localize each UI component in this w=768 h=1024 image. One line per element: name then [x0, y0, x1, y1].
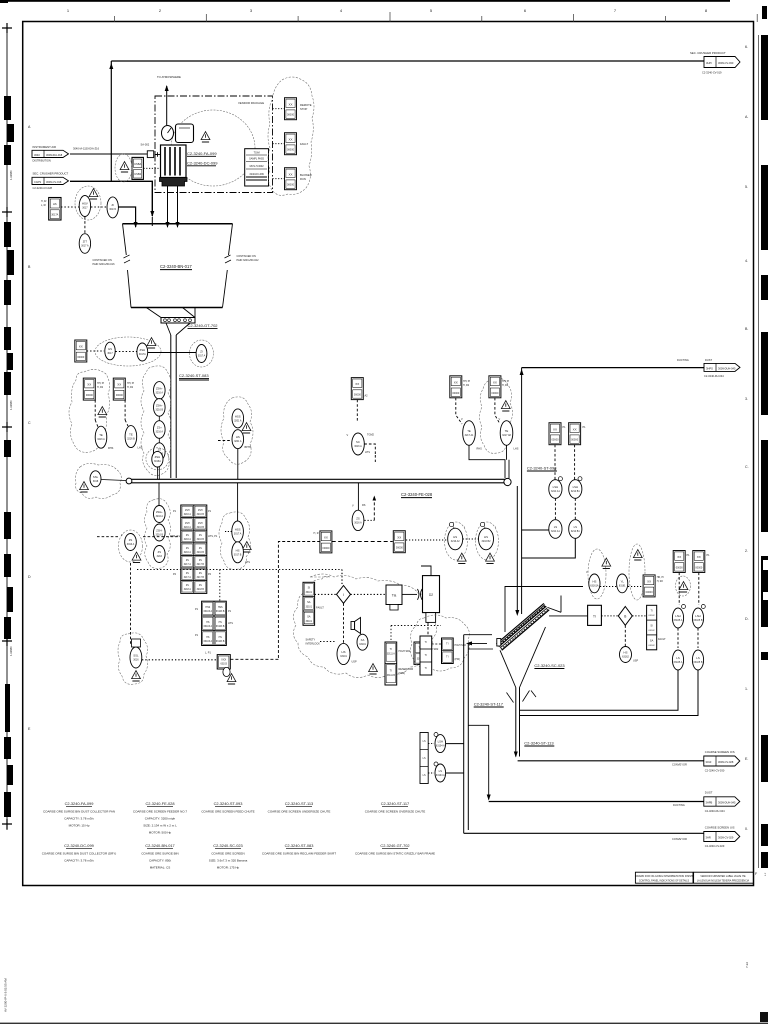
svg-text:33111 A: 33111 A [387, 653, 396, 656]
bubble HS-3201A [232, 430, 252, 449]
wire dotted B to SI stack [632, 615, 646, 617]
svg-text:DUCTING: DUCTING [673, 803, 685, 807]
svg-text:3217 B: 3217 B [197, 577, 205, 579]
coupling symbol [418, 589, 423, 600]
svg-text:B: B [624, 615, 626, 619]
wire dashed B down to HS [624, 625, 626, 647]
motor starter TIa box [386, 585, 402, 610]
wires: filter discharge lines into bin [167, 186, 169, 227]
wire screen to Tr row [549, 615, 588, 617]
svg-text:RHS: RHS [108, 447, 114, 450]
equipment note DC-099 [42, 843, 117, 863]
svg-text:LHS: LHS [228, 622, 233, 625]
svg-text:3009-CV-028: 3009-CV-028 [718, 760, 734, 764]
wire: dotted USBA to filter [143, 167, 160, 169]
svg-text:USB2: USB2 [134, 172, 141, 176]
svg-text:3017 B: 3017 B [234, 553, 242, 556]
duct feed stubs to screen [464, 635, 492, 644]
DCS box LSH-3214A1 [549, 423, 561, 445]
wire dotted HS to HSV [61, 206, 79, 208]
wire ZSH to belt [156, 467, 158, 479]
svg-text:0.: 0. [745, 827, 748, 831]
DCS box SE-3016B [351, 378, 363, 400]
svg-text:SA: SA [307, 600, 311, 604]
svg-text:(SR2): (SR2) [399, 672, 406, 675]
bottom scan edge line [0, 1023, 768, 1024]
svg-text:CONTINUED ON: CONTINUED ON [237, 255, 257, 258]
bubble TE-3216A [95, 426, 113, 450]
svg-text:3009-DUH-045: 3009-DUH-045 [718, 801, 736, 805]
svg-text:3018: 3018 [93, 480, 99, 483]
svg-text:3017: 3017 [82, 207, 88, 210]
DCS box ZS-3216A8 [393, 531, 405, 553]
svg-text:63161A: 63161A [590, 584, 599, 587]
svg-text:HS: HS [624, 651, 628, 655]
DCS box LSH-63105A [673, 551, 685, 573]
equipment note SC-023 [209, 843, 248, 870]
DCS box [420, 733, 428, 784]
svg-text:MOTOR: 175 Hp: MOTOR: 175 Hp [217, 866, 240, 870]
small bubble + triangle under LP box [223, 667, 230, 676]
svg-text:C2-3240-ST-083: C2-3240-ST-083 [179, 373, 209, 378]
wire dotted stack to diamond [315, 593, 336, 595]
wire dashed run y=659.3 [230, 658, 278, 660]
svg-text:C2-3240-FE-028: C2-3240-FE-028 [401, 492, 433, 497]
bubble ZI-3017A [196, 345, 207, 363]
svg-text:RHS: RHS [477, 448, 483, 451]
svg-text:3217 A8: 3217 A8 [502, 434, 511, 437]
svg-text:HSS: HSS [205, 607, 210, 609]
svg-text:HH, PI: HH, PI [97, 382, 104, 385]
svg-text:3216 A: 3216 A [184, 526, 192, 529]
DCS box SI-63161 [643, 575, 664, 597]
wire TE bus to head pulley [469, 445, 505, 478]
bubble LSH-63104 [434, 733, 446, 753]
bubble LS-63105B [692, 650, 703, 670]
wire dotted main run y=569.5 [137, 569, 342, 571]
sample panel box [245, 149, 269, 186]
svg-text:HSS: HSS [218, 607, 223, 609]
svg-text:3217 A: 3217 A [184, 576, 192, 579]
svg-text:TE: TE [129, 433, 133, 437]
bubble ZSH+3216A [154, 382, 166, 400]
svg-text:USBA: USBA [134, 162, 141, 166]
DCS box BLOWER RUN [285, 168, 312, 190]
svg-text:33111 B: 33111 B [387, 675, 396, 677]
bubble ZSH-3016A (above belt) [152, 451, 163, 467]
wire dotted to fault [273, 143, 285, 145]
bubble ZS-3016A (below belt) [352, 483, 366, 531]
wire dotted YL to SI [628, 586, 643, 588]
svg-text:TO ATMOSPHERE: TO ATMOSPHERE [157, 75, 181, 79]
svg-text:3216 A: 3216 A [156, 515, 164, 518]
svg-text:CONTINUED ON: CONTINUED ON [93, 259, 113, 262]
wire dotted lube run [390, 626, 392, 643]
right registration strip [759, 6, 768, 868]
duct C2-3240-ST-083 (double line down to conveyor) [170, 335, 172, 478]
cloud + triangle (USBA) [115, 154, 132, 182]
svg-text:C2-3240-FA-099: C2-3240-FA-099 [187, 151, 217, 156]
wire bubble stack connectors [158, 398, 160, 400]
svg-text:3009-DUH-045: 3009-DUH-045 [718, 367, 736, 371]
wire dotted to GS bubble [87, 350, 104, 352]
skirt lips [507, 691, 537, 703]
svg-text:FAULT: FAULT [658, 638, 666, 641]
svg-text:3216 A: 3216 A [97, 438, 105, 441]
wires dashed LSH to LS [677, 628, 679, 648]
equipment note FE-028 [133, 801, 188, 835]
svg-text:CONVEYOR: CONVEYOR [672, 762, 687, 766]
svg-text:CONTROL PANEL INDICATIONS OF D: CONTROL PANEL INDICATIONS OF DETAILS [639, 880, 690, 883]
svg-text:3016 A: 3016 A [354, 521, 362, 524]
svg-text:HIGH SR2: HIGH SR2 [455, 644, 467, 647]
valve bubble HSV-3017 [79, 196, 90, 217]
bubble ZSH-3216B [154, 524, 166, 541]
wire: riser x=111 down to sec crusher line [110, 61, 112, 181]
svg-text:D: D [28, 575, 31, 579]
label C2-3240-ST-113 [524, 741, 554, 747]
svg-text:TE: TE [467, 429, 471, 433]
svg-text:C2-3240-ST-117: C2-3240-ST-117 [474, 702, 504, 707]
svg-text:3216 A: 3216 A [184, 538, 192, 541]
svg-text:3214 B1: 3214 B1 [571, 530, 581, 533]
bubble LSH-63105B [692, 605, 705, 629]
inlet arrow INSTRUMENT AIR [32, 145, 100, 163]
wire dotted HSV to ZI bubble [91, 206, 107, 208]
svg-text:3017A: 3017A [109, 208, 116, 211]
bubble ZS-3216B [154, 443, 166, 461]
conveyor belt lines [129, 478, 507, 480]
svg-text:3217 A: 3217 A [184, 563, 192, 566]
wire across duct to ZI bubble [148, 352, 196, 354]
wire drop from belt to pull-cord stack [158, 483, 160, 506]
triangle HS right [486, 553, 495, 563]
bubble ZIT-3017A [79, 234, 90, 254]
svg-text:HSS: HSS [235, 528, 241, 532]
svg-text:SC: SC [356, 440, 360, 444]
svg-text:INSTRUMENT AIR: INSTRUMENT AIR [33, 145, 57, 149]
bubble LS-3214B1 [569, 520, 582, 539]
svg-text:ZS: ZS [356, 516, 360, 520]
svg-text:INTERLOCK: INTERLOCK [306, 643, 321, 646]
svg-text:ZS: ZS [186, 573, 189, 575]
bubble HS-3216A2 [448, 522, 466, 550]
svg-text:3216 B: 3216 B [197, 514, 205, 516]
svg-text:BLOWER: BLOWER [300, 173, 312, 177]
note box 1 [635, 872, 693, 883]
DCS stack SI-33101 [303, 582, 324, 625]
wire undersize to conveyor [464, 832, 704, 834]
cloud around blower group [171, 110, 255, 186]
svg-text:C2-3240-CV-029: C2-3240-CV-029 [705, 844, 725, 848]
svg-text:LHS, P1: LHS, P1 [208, 535, 218, 538]
wire dashed short stub left of ZS-3016A [97, 536, 118, 538]
svg-text:COARSE SCREEN U/S: COARSE SCREEN U/S [705, 826, 735, 830]
wire belt to HSS cluster [237, 483, 239, 521]
wire dashed down from ZS-3016A [130, 563, 132, 645]
svg-text:ZI: ZI [111, 203, 114, 207]
svg-text:63162: 63162 [649, 630, 656, 632]
bubble SC-3016A [347, 433, 375, 455]
top ruler numbers [67, 8, 708, 13]
svg-text:TE: TE [505, 429, 509, 433]
svg-text:CAPACITY: 850t: CAPACITY: 850t [149, 859, 171, 863]
outlet arrow COARSE SCREEN U/S [704, 826, 740, 849]
bubble LS-63105A [672, 650, 683, 670]
warning triangle (blower) [201, 132, 210, 142]
svg-text:LS: LS [423, 774, 426, 777]
svg-text:E.: E. [745, 757, 748, 761]
svg-text:63103 A: 63103 A [204, 640, 213, 643]
cloud HSS pair (belt stop switches) [219, 512, 251, 569]
svg-text:3214 B1: 3214 B1 [571, 490, 581, 493]
svg-text:SIZE: 2.134 m W x 2 m L: SIZE: 2.134 m W x 2 m L [143, 824, 177, 828]
wire dotted between HS pair [463, 538, 479, 540]
cloud [119, 530, 143, 562]
svg-text:ZSH: ZSH [198, 523, 203, 525]
wire dotted ZS to dashed riser [365, 519, 375, 521]
bubble TE-3217A8 [499, 418, 519, 451]
svg-text:TE: TE [99, 433, 103, 437]
svg-text:3040-IA-1150-DIA-Z16: 3040-IA-1150-DIA-Z16 [73, 147, 100, 151]
label C2-3240-FA-099 [187, 151, 217, 156]
svg-text:ZS: ZS [186, 585, 189, 587]
svg-text:LSH: LSH [675, 614, 680, 618]
svg-text:RESERVOIR: RESERVOIR [399, 668, 414, 671]
cloud around right TI/TE pair [480, 378, 513, 453]
svg-text:ZSH: ZSH [155, 455, 161, 459]
svg-text:COARSE ORE SURGE BIN RECLAIM F: COARSE ORE SURGE BIN RECLAIM FEEDER SKIR… [262, 852, 336, 856]
svg-text:C2-3240-ST-113: C2-3240-ST-113 [524, 741, 554, 746]
wire from belt drive up [421, 566, 431, 576]
svg-text:LS: LS [676, 656, 680, 660]
screen feed box (left end) [497, 639, 501, 647]
wire dashed from box left then down [278, 542, 320, 556]
DCS faceplate grid (belt switch matrix) [170, 505, 218, 593]
wire dashed TI to TE [94, 400, 96, 420]
DCS box TI-33112 [414, 642, 439, 664]
svg-text:P&ID 3200-ZID-022: P&ID 3200-ZID-022 [237, 259, 260, 262]
svg-text:TIa: TIa [392, 594, 397, 598]
svg-text:LS: LS [423, 740, 426, 743]
svg-text:3216: 3216 [157, 555, 163, 558]
svg-text:3214 A1: 3214 A1 [551, 490, 560, 493]
svg-text:LSH: LSH [695, 614, 700, 618]
wire dashed down [495, 398, 500, 424]
bottom right corner mark [745, 962, 768, 1022]
svg-text:3016 A: 3016 A [127, 543, 135, 546]
svg-text:ZS: ZS [199, 535, 202, 537]
svg-text:1-32680: 1-32680 [9, 646, 13, 656]
registration crosses [2, 23, 12, 33]
interlock diamond B [618, 607, 632, 626]
svg-text:ZS: ZS [199, 548, 202, 550]
right margin row letters [745, 45, 758, 876]
cloud column A [69, 369, 110, 452]
svg-text:HH, PI: HH, PI [463, 380, 470, 383]
svg-text:H, R2: H, R2 [463, 384, 470, 387]
svg-text:ZS: ZS [186, 535, 189, 537]
svg-text:ZS+: ZS+ [157, 426, 162, 430]
DCS box GS-3017 [75, 340, 87, 362]
svg-text:ZS: ZS [199, 560, 202, 562]
svg-text:SAMPL PASS: SAMPL PASS [249, 158, 264, 161]
label C2-3240-ST-093 [527, 466, 557, 472]
svg-text:HS: HS [219, 622, 223, 624]
bubble HS-3216B2 [479, 522, 497, 550]
svg-text:C2-3240-ST-117: C2-3240-ST-117 [381, 801, 409, 806]
svg-text:ZSH: ZSH [139, 348, 145, 352]
svg-text:C2-3240-DC-099: C2-3240-DC-099 [187, 161, 218, 166]
svg-text:FAULT: FAULT [300, 142, 309, 146]
fold blocks [4, 96, 14, 817]
svg-text:63162: 63162 [649, 645, 656, 647]
wire dashed D2 to boxes [427, 622, 429, 636]
svg-text:HSV: HSV [82, 202, 88, 206]
svg-text:3216 A: 3216 A [184, 551, 192, 554]
svg-text:COARSE ORE SURGE BIN STATIC GR: COARSE ORE SURGE BIN STATIC GRIZZLY BAR … [355, 852, 435, 856]
svg-text:ZS: ZS [199, 573, 202, 575]
svg-text:C2-3240-SC-023: C2-3240-SC-023 [213, 843, 242, 848]
svg-text:SA: SA [307, 615, 311, 619]
wire dotted drop from dotted run to mid grid [219, 570, 221, 602]
svg-text:L, R/: L, R/ [41, 204, 46, 207]
svg-text:HS: HS [484, 535, 488, 539]
wire dashed SE to SC bubble [356, 400, 358, 421]
svg-text:ZS: ZS [129, 538, 133, 542]
svg-text:3009-CV-029: 3009-CV-029 [718, 836, 734, 840]
svg-text:ZSH: ZSH [185, 510, 190, 512]
svg-text:HS: HS [236, 435, 240, 439]
wire oversize to conveyor [518, 760, 704, 762]
svg-text:3HPI: 3HPI [706, 61, 712, 65]
svg-text:COARSE ORE SCREEN: COARSE ORE SCREEN [211, 852, 244, 856]
svg-text:FAULT: FAULT [316, 606, 324, 610]
big cloud [293, 574, 436, 678]
svg-text:SA-002: SA-002 [141, 143, 150, 147]
svg-text:RS: RS [362, 504, 366, 507]
svg-text:SI: SI [650, 625, 653, 628]
svg-text:MATERIAL: CS: MATERIAL: CS [150, 866, 171, 870]
svg-text:HS: HS [219, 637, 223, 639]
svg-text:HS: HS [453, 535, 457, 539]
DCS box TI-3217A1 [450, 376, 462, 398]
wire dashed between boxes [332, 541, 393, 543]
solenoid USBA box [132, 157, 143, 179]
wire dust to ducting [489, 801, 704, 803]
wire dotted HSS left [225, 531, 232, 533]
svg-text:DRAWN FOR ON-GOING INTERPRETAT: DRAWN FOR ON-GOING INTERPRETATION FINISH [635, 875, 693, 878]
svg-text:LHS: LHS [365, 451, 370, 454]
svg-text:DUST: DUST [705, 791, 713, 795]
svg-text:USP: USP [352, 661, 357, 664]
svg-text:SEC. CRUSHER PRODUCT: SEC. CRUSHER PRODUCT [690, 51, 726, 55]
transformer box Tr [588, 605, 602, 625]
svg-text:63162: 63162 [649, 615, 656, 617]
wires dashed LSH to LS [554, 498, 556, 519]
screen underflow V chute [500, 650, 516, 687]
svg-text:3216 B2: 3216 B2 [482, 540, 492, 543]
svg-text:63105 A: 63105 A [674, 661, 683, 664]
wires dashed down to LSH bubbles [554, 445, 556, 480]
inlet arrow SEC. CRUSHER PRODUCT (left) [32, 172, 69, 190]
equipment note ST-083 [262, 843, 336, 856]
outlet arrow DUST (bottom) [704, 791, 740, 814]
svg-text:LHS: LHS [514, 448, 519, 451]
DCS box cluster left [420, 636, 432, 675]
svg-text:XA: XA [361, 638, 365, 642]
cloud pull-cord stack [145, 499, 171, 569]
svg-text:3217 B: 3217 B [197, 564, 205, 566]
cloud (ZI right) [190, 340, 214, 367]
svg-text:HR, PI: HR, PI [657, 576, 664, 579]
svg-text:H, R: H, R [314, 532, 319, 535]
bubble YL-63161 [617, 574, 628, 593]
svg-text:TO/M: TO/M [254, 152, 260, 155]
svg-text:STOP: STOP [300, 107, 307, 111]
tall cloud C (bin level switches) [141, 366, 171, 476]
svg-text:C2-3240-FA-099: C2-3240-FA-099 [65, 801, 94, 806]
wires dashed down [678, 573, 680, 606]
svg-text:4.: 4. [745, 259, 748, 263]
wire probes into chute [522, 529, 549, 531]
wire dashed from HS-3201A to left [218, 440, 231, 442]
bubble ZSH+3216B [154, 399, 166, 417]
svg-text:C: C [28, 421, 31, 425]
svg-text:CAPACITY: 3200 mtph: CAPACITY: 3200 mtph [145, 817, 176, 821]
svg-text:LS: LS [696, 656, 700, 660]
DCS box TI-3216B (column B) [113, 378, 125, 400]
svg-text:VENDOR PACKAGE: VENDOR PACKAGE [238, 101, 264, 105]
svg-text:3HR: 3HR [706, 836, 711, 840]
wire screen to HS row [505, 587, 583, 633]
svg-text:ZS: ZS [186, 548, 189, 550]
bin C2-3240-BN-017 [123, 224, 233, 318]
svg-text:3240-DC-099: 3240-DC-099 [249, 173, 264, 176]
svg-text:COARSE SCREEN O/S: COARSE SCREEN O/S [705, 750, 735, 754]
DCS box FAULT [285, 133, 309, 155]
svg-text:C2-3240-ST-093: C2-3240-ST-093 [527, 466, 557, 471]
svg-text:3216 B: 3216 B [197, 527, 205, 529]
bubble LSH-3214B1 [569, 477, 582, 499]
svg-text:HS: HS [236, 548, 240, 552]
svg-text:3216 B: 3216 B [197, 539, 205, 541]
svg-text:3HPB: 3HPB [706, 801, 713, 805]
svg-text:3016A: 3016A [154, 460, 161, 463]
label C2-3240-ST-117 [474, 702, 504, 708]
svg-text:H, R2: H, R2 [657, 580, 664, 583]
cloud ZSH-3016A [146, 448, 169, 470]
svg-text:3017 A: 3017 A [234, 533, 242, 536]
svg-text:COARSE ORE SURGE BIN DUST COLL: COARSE ORE SURGE BIN DUST COLLECTOR FAN [43, 810, 115, 814]
svg-text:3218 B: 3218 B [197, 589, 205, 591]
DCS box TI-3216A [83, 378, 95, 400]
bubble ZI-3017 [107, 197, 118, 218]
cloud [410, 615, 469, 671]
bubble ZSH-3017A [137, 343, 148, 361]
cloud (GS row) [95, 337, 161, 366]
skirt chute below feeder [166, 323, 171, 335]
svg-text:HS: HS [592, 579, 596, 583]
pressure gauge PI on filter [162, 126, 174, 141]
riser dust from screen feed chute [521, 368, 523, 486]
svg-text:1-32680: 1-32680 [9, 170, 13, 180]
bubble LS-63104 [434, 762, 446, 782]
svg-text:3216 A2: 3216 A2 [451, 540, 460, 543]
svg-text:LS: LS [574, 525, 578, 529]
svg-text:D2: D2 [429, 593, 433, 597]
svg-text:3.: 3. [745, 397, 748, 401]
